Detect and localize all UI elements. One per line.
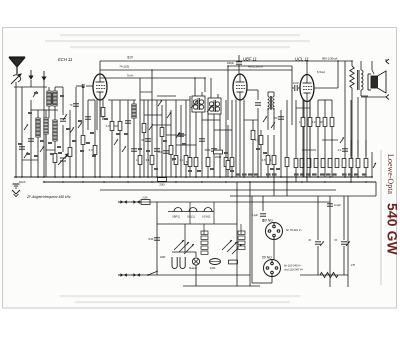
svg-text:ECH 11: ECH 11 bbox=[58, 57, 72, 62]
wire bbox=[139, 78, 141, 177]
wire bbox=[30, 100, 32, 110]
capacitor C8 bbox=[163, 150, 169, 152]
capacitor C10 bbox=[199, 138, 205, 140]
wire bbox=[180, 105, 182, 177]
resistor R24 bbox=[226, 161, 230, 170]
resistor R40 20 ohm bbox=[158, 178, 167, 182]
wire bbox=[295, 168, 297, 182]
trimmer IF1 bbox=[191, 101, 197, 108]
wire bbox=[239, 100, 241, 177]
wire bbox=[43, 87, 45, 177]
wire bbox=[170, 110, 172, 177]
resistor R39 bbox=[364, 159, 368, 168]
resistor R3 bbox=[93, 146, 97, 155]
wire bbox=[271, 277, 273, 283]
wire bbox=[317, 246, 319, 275]
wire bbox=[99, 100, 101, 177]
pin ECH11 a bbox=[96, 100, 98, 116]
resistor R8 bbox=[150, 156, 154, 165]
dial lamp bbox=[192, 258, 199, 265]
wire bbox=[22, 159, 38, 161]
IF/detector tube UBF11 bbox=[233, 74, 247, 100]
resistor R37 bbox=[349, 159, 353, 168]
output terminal 2 bbox=[386, 95, 389, 100]
wire bbox=[75, 87, 77, 177]
svg-text:81V: 81V bbox=[127, 56, 134, 60]
antenna coil L1 secondary bbox=[53, 91, 57, 106]
resistor R21 bbox=[266, 156, 270, 165]
wire bbox=[151, 70, 153, 177]
wire bbox=[48, 87, 50, 91]
wire bbox=[118, 274, 250, 276]
switch contact S3a bbox=[158, 100, 162, 106]
junction dots bus2 bbox=[43, 181, 45, 183]
wire bbox=[365, 168, 367, 177]
antenna bbox=[9, 57, 25, 74]
svg-text:5000: 5000 bbox=[205, 148, 211, 152]
wire bbox=[249, 202, 251, 286]
capacitor C17 bbox=[154, 237, 160, 239]
svg-text:für 110-240 V~: für 110-240 V~ bbox=[284, 264, 302, 268]
wire bbox=[273, 182, 275, 196]
svg-text:20Ω: 20Ω bbox=[159, 183, 164, 187]
trimmer T1 bbox=[78, 122, 82, 128]
switch contact S3d bbox=[176, 132, 180, 138]
svg-text:Loewe-Opta: Loewe-Opta bbox=[386, 154, 395, 194]
wire bbox=[161, 105, 163, 177]
wire bbox=[119, 100, 121, 177]
wire bbox=[273, 108, 275, 130]
wire bbox=[295, 100, 297, 158]
wire bbox=[317, 127, 319, 177]
wire bbox=[157, 95, 176, 97]
wire bbox=[133, 100, 135, 177]
antenna terminal 2 bbox=[29, 70, 33, 79]
wire bbox=[371, 152, 373, 177]
resistor R42 bbox=[320, 273, 338, 278]
resistor R27 bbox=[330, 118, 334, 127]
wire bbox=[238, 55, 240, 61]
wire bbox=[262, 219, 264, 222]
wire bbox=[156, 100, 158, 177]
ground bbox=[13, 183, 20, 185]
capacitor C15 10nF bbox=[294, 85, 296, 91]
capacitor C2 bbox=[73, 103, 79, 105]
wire bbox=[87, 100, 89, 130]
resistor R31 bbox=[307, 159, 311, 168]
wire bbox=[331, 127, 333, 177]
wire bbox=[213, 202, 215, 224]
output terminal 1 bbox=[386, 59, 389, 64]
switch contact S1f bbox=[40, 146, 44, 152]
resistor R25 bbox=[316, 118, 320, 127]
wire bbox=[357, 140, 359, 156]
wire bbox=[292, 87, 294, 89]
wire bbox=[350, 140, 352, 156]
fuse resistor bbox=[210, 259, 221, 265]
wire bbox=[43, 80, 45, 87]
wire bbox=[37, 137, 39, 177]
capacitor C4 bbox=[125, 120, 131, 122]
junction dots bus bbox=[15, 176, 17, 178]
svg-text:74,15Ω: 74,15Ω bbox=[119, 65, 130, 69]
wire bbox=[257, 90, 259, 100]
svg-text:0,8A: 0,8A bbox=[142, 196, 147, 199]
wire bbox=[260, 130, 262, 135]
wire bbox=[350, 168, 352, 182]
wire bbox=[203, 224, 205, 234]
wire bbox=[302, 100, 304, 117]
capacitor C18 bbox=[260, 213, 266, 215]
antenna terminal 3 bbox=[42, 71, 46, 80]
wire bbox=[371, 61, 373, 70]
svg-text:ZF-Abgleichfrequenz 468 kHz: ZF-Abgleichfrequenz 468 kHz bbox=[26, 195, 71, 199]
wire bbox=[262, 196, 264, 211]
wire bbox=[309, 100, 311, 117]
wire bbox=[189, 96, 191, 177]
wire bbox=[227, 66, 229, 120]
wire bbox=[351, 61, 353, 66]
resistor R35 bbox=[335, 159, 339, 168]
svg-text:0,1: 0,1 bbox=[255, 138, 259, 142]
wire bbox=[372, 70, 374, 74]
voltage selector resistors a bbox=[201, 231, 208, 234]
wire bbox=[34, 109, 58, 111]
wire bbox=[118, 201, 330, 203]
wire bbox=[88, 99, 95, 101]
wire bbox=[210, 78, 212, 94]
wire bbox=[195, 265, 197, 286]
wire bbox=[45, 134, 47, 160]
pin UCL11 b bbox=[309, 101, 311, 178]
svg-text:0,1: 0,1 bbox=[338, 148, 342, 152]
wire bbox=[14, 176, 372, 178]
rectifier tube 50NG bbox=[264, 260, 281, 277]
capacitor C1 bbox=[60, 118, 66, 120]
svg-text:7mA: 7mA bbox=[127, 74, 133, 78]
core antenna transformer bbox=[51, 93, 53, 104]
resistor R1 bbox=[68, 148, 72, 157]
wire bbox=[244, 119, 258, 121]
svg-text:UCL 11: UCL 11 bbox=[295, 57, 309, 62]
pin ECH11 b bbox=[102, 100, 104, 121]
capacitor C3 bbox=[85, 116, 91, 118]
trimmer T2 bbox=[263, 116, 267, 122]
switch contact S1e bbox=[24, 152, 28, 158]
resistor R7 bbox=[142, 124, 146, 133]
wire bbox=[37, 110, 39, 118]
svg-text:540 GW: 540 GW bbox=[385, 203, 400, 256]
resistor R10 bbox=[169, 146, 173, 155]
wire bbox=[166, 134, 186, 136]
wire bbox=[62, 161, 64, 177]
wire bbox=[62, 125, 64, 152]
tone switch S6 bbox=[373, 163, 376, 168]
separator line bbox=[380, 150, 382, 285]
svg-text:50 NG: 50 NG bbox=[262, 256, 272, 260]
wire bbox=[300, 274, 348, 276]
fuse F1 bbox=[141, 200, 150, 205]
wire bbox=[267, 92, 269, 96]
resistor R19 bbox=[251, 131, 255, 140]
band switch S1d bbox=[33, 91, 37, 97]
wire bbox=[291, 66, 293, 125]
svg-text:275: 275 bbox=[351, 264, 356, 267]
IF transformer IF2 bbox=[208, 94, 221, 114]
wire bbox=[286, 182, 288, 196]
wire bbox=[156, 202, 158, 275]
wire bbox=[337, 61, 339, 88]
resistor R23 bbox=[285, 158, 289, 167]
mains plug pin 4 bbox=[131, 274, 141, 276]
wire bbox=[82, 86, 84, 135]
svg-text:0,5: 0,5 bbox=[262, 158, 266, 162]
resistor R36 bbox=[342, 159, 346, 168]
pin UBF11 a bbox=[235, 100, 237, 178]
capacitor C19 bbox=[327, 203, 333, 205]
wire bbox=[360, 90, 362, 96]
ground 2 bbox=[12, 190, 20, 194]
wire bbox=[257, 108, 259, 177]
wire bbox=[21, 87, 23, 125]
wire bbox=[157, 223, 237, 225]
resistor R4 bbox=[110, 122, 114, 131]
resistor R32 bbox=[314, 159, 318, 168]
junction dots rails bbox=[151, 69, 153, 71]
wire bbox=[227, 125, 229, 160]
capacitor C20 bbox=[315, 241, 321, 243]
wire bbox=[252, 140, 254, 177]
resistor R41 bbox=[229, 260, 238, 264]
output tube UCL11 bbox=[300, 75, 314, 102]
svg-text:6,5mA: 6,5mA bbox=[317, 70, 325, 74]
oscillator coil L4 bbox=[53, 120, 57, 141]
wire bbox=[231, 100, 233, 177]
wire bbox=[204, 78, 206, 92]
wire bbox=[54, 141, 56, 177]
wire bbox=[201, 96, 203, 177]
ghost print-through bbox=[60, 34, 300, 36]
output transformer primary bbox=[358, 70, 363, 90]
wire bbox=[329, 196, 331, 287]
resistor R9 bbox=[160, 128, 164, 137]
mains plug pin 3 bbox=[118, 274, 128, 276]
wire bbox=[69, 157, 71, 177]
triode-hexode ECH11 bbox=[93, 74, 107, 100]
svg-text:Skalenl.: Skalenl. bbox=[189, 267, 198, 270]
wire bbox=[268, 91, 274, 93]
wire bbox=[267, 165, 269, 177]
wire bbox=[302, 127, 304, 177]
resistor R29 bbox=[294, 159, 298, 168]
wire bbox=[219, 100, 221, 177]
wire bbox=[108, 99, 136, 101]
svg-text:10nF: 10nF bbox=[293, 81, 299, 85]
switch contact S3c bbox=[149, 124, 153, 130]
svg-text:5/10: 5/10 bbox=[148, 237, 154, 241]
grid cap ECH11 bbox=[86, 85, 93, 87]
wire bbox=[55, 86, 63, 88]
wire bbox=[54, 87, 56, 91]
resistor R13 bbox=[188, 158, 192, 167]
svg-text:UBF 11: UBF 11 bbox=[243, 57, 257, 62]
wire bbox=[273, 135, 275, 155]
svg-text:100: 100 bbox=[158, 150, 163, 154]
wire bbox=[365, 97, 367, 158]
wire bbox=[195, 112, 197, 177]
antenna coupling switch bbox=[11, 74, 21, 84]
wire bbox=[302, 149, 316, 151]
resistor R20 bbox=[259, 136, 263, 145]
svg-text:40W: 40W bbox=[160, 255, 166, 259]
speaker LS bbox=[368, 71, 386, 93]
wave-change switch S1a bbox=[24, 124, 28, 130]
wire bbox=[44, 181, 376, 183]
wire bbox=[240, 224, 242, 234]
wire bbox=[309, 127, 311, 177]
wire bbox=[251, 196, 253, 283]
wire bbox=[343, 196, 345, 240]
voltage selector contacts b bbox=[222, 240, 232, 250]
switch contact S3b bbox=[167, 112, 171, 118]
svg-text:2000: 2000 bbox=[215, 155, 222, 159]
svg-text:und 110-240 V=: und 110-240 V= bbox=[284, 268, 303, 272]
wire bbox=[185, 100, 187, 177]
wire bbox=[318, 99, 332, 101]
wire bbox=[273, 92, 275, 96]
resistor R34 bbox=[328, 159, 332, 168]
wire bbox=[375, 182, 377, 196]
wire bbox=[298, 87, 300, 89]
wire bbox=[127, 100, 129, 177]
wire bbox=[357, 97, 359, 158]
svg-text:98V 0,30mA: 98V 0,30mA bbox=[322, 57, 338, 61]
svg-text:4046: 4046 bbox=[210, 267, 216, 270]
wire bbox=[280, 110, 282, 177]
wire bbox=[252, 120, 254, 130]
tiny value labels row bbox=[236, 173, 241, 175]
tone switch S4 bbox=[340, 137, 344, 143]
wire bbox=[111, 100, 113, 177]
mains switch S5 bbox=[148, 271, 158, 275]
svg-text:0,1μF: 0,1μF bbox=[334, 203, 341, 207]
wire bbox=[207, 112, 209, 177]
wire bbox=[361, 95, 368, 97]
wire bbox=[236, 202, 238, 286]
svg-text:0,1μF: 0,1μF bbox=[251, 213, 258, 217]
resistor R15 bbox=[206, 158, 210, 167]
wire bbox=[183, 285, 260, 287]
wire bbox=[322, 139, 338, 141]
wire bbox=[267, 108, 269, 130]
resistor R2 bbox=[81, 136, 85, 145]
wire bbox=[227, 170, 229, 177]
capacitor C14 bbox=[278, 116, 284, 118]
wire bbox=[264, 282, 272, 284]
wire bbox=[99, 61, 101, 74]
resistor R38 bbox=[356, 159, 360, 168]
wire bbox=[62, 87, 64, 115]
wire bbox=[189, 202, 191, 224]
mains plug pin 1 bbox=[118, 201, 128, 203]
capacitor C23 bbox=[19, 146, 25, 148]
wire bbox=[360, 61, 362, 70]
svg-text:0,1: 0,1 bbox=[180, 158, 184, 162]
resistor R11 bbox=[174, 156, 178, 165]
capacitor C22 bbox=[28, 138, 34, 140]
wire bbox=[69, 110, 71, 147]
capacitor C11 bbox=[211, 148, 217, 150]
wire bbox=[172, 251, 196, 253]
wire bbox=[96, 115, 98, 130]
wire bbox=[230, 195, 376, 197]
resistor R26 bbox=[323, 118, 327, 127]
wire bbox=[100, 189, 336, 191]
trimmer T3 bbox=[271, 122, 275, 128]
selector arrow a bbox=[320, 241, 324, 246]
wire bbox=[45, 110, 47, 118]
wire bbox=[30, 80, 32, 87]
wire bbox=[143, 100, 145, 177]
wire bbox=[247, 89, 258, 91]
wire bbox=[165, 100, 167, 177]
switch contact S2b bbox=[122, 146, 126, 152]
pin UBF11 b bbox=[243, 100, 245, 178]
trimmer IF2 bbox=[207, 105, 213, 112]
rectifier tube 60NG bbox=[266, 223, 283, 240]
oscillator coil L3 bbox=[44, 118, 48, 134]
wave-change switch S1c bbox=[70, 127, 74, 133]
wire bbox=[140, 99, 190, 101]
wire bbox=[365, 140, 367, 156]
svg-text:100pF: 100pF bbox=[227, 61, 235, 65]
wire bbox=[213, 100, 215, 177]
resistor R12 bbox=[184, 156, 188, 165]
wire bbox=[331, 100, 333, 117]
wire bbox=[385, 59, 387, 61]
wire bbox=[357, 168, 359, 177]
resistor R16 bbox=[214, 150, 223, 154]
wire bbox=[100, 77, 205, 79]
wire bbox=[152, 124, 171, 126]
wire bbox=[100, 69, 292, 71]
wire bbox=[260, 145, 262, 177]
wire bbox=[314, 87, 338, 89]
tiny labels left low bbox=[18, 143, 22, 145]
wire bbox=[238, 65, 240, 74]
svg-text:0,1: 0,1 bbox=[146, 158, 150, 162]
resistor R14 bbox=[194, 158, 198, 167]
wire bbox=[202, 119, 220, 121]
wire bbox=[306, 61, 308, 74]
capacitor C9 bbox=[178, 133, 184, 135]
svg-text:UCL11: UCL11 bbox=[187, 215, 195, 219]
resistor R43 bbox=[301, 118, 305, 127]
wire bbox=[267, 135, 269, 155]
wire bbox=[176, 144, 196, 146]
wire bbox=[273, 165, 275, 182]
wire bbox=[252, 282, 264, 284]
svg-text:60 NG: 60 NG bbox=[263, 219, 273, 223]
wire bbox=[228, 65, 292, 67]
wire bbox=[30, 110, 32, 177]
capacitor C13 bbox=[255, 102, 261, 104]
wire bbox=[347, 196, 349, 287]
IF transformer IF1 bbox=[192, 92, 205, 112]
wire bbox=[147, 100, 149, 177]
wire bbox=[100, 60, 352, 62]
wave-change switch S1b bbox=[63, 114, 67, 120]
